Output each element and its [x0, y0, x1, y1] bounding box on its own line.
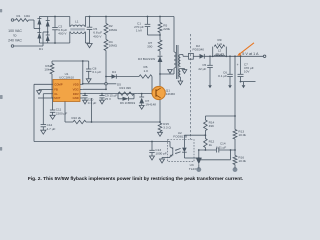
wire divider to R14: [205, 115, 235, 117]
svg-text:1N4148: 1N4148: [145, 103, 156, 107]
svg-text:to: to: [14, 34, 17, 38]
ground R15: [158, 132, 163, 137]
svg-text:0.1 µF: 0.1 µF: [92, 70, 101, 74]
svg-text:400 V: 400 V: [58, 32, 67, 36]
svg-text:220k: 220k: [163, 27, 170, 31]
capacitor C9: [99, 94, 117, 102]
ground primary near transformer: [168, 70, 173, 74]
wire D4 to R6: [116, 76, 139, 78]
svg-text:CL: CL: [54, 92, 58, 96]
resistor R13: [118, 86, 134, 95]
IC U1 UCC28610: [53, 72, 80, 102]
diode D3: [138, 51, 162, 62]
wire R16 bottom: [234, 165, 236, 168]
optocoupler U2 box: [168, 131, 194, 162]
svg-text:1000 pF: 1000 pF: [155, 152, 166, 156]
resistor R2: [104, 17, 118, 35]
svg-text:400 V: 400 V: [93, 34, 102, 38]
wire divider mid: [234, 139, 236, 156]
svg-text:22 µF: 22 µF: [198, 67, 206, 71]
opto arrows: [175, 148, 181, 154]
inductor L2: [215, 48, 225, 56]
wire DRV riser: [91, 98, 93, 122]
svg-text:10MΩ: 10MΩ: [109, 28, 118, 32]
svg-text:0.1 µF: 0.1 µF: [218, 74, 227, 78]
arrow output annotation: [237, 43, 254, 56]
diode D4: [106, 70, 116, 79]
resistor R1: [14, 14, 31, 21]
ground primary C5: [87, 44, 92, 48]
ground C12: [41, 130, 46, 134]
resistor R6: [139, 65, 152, 78]
svg-text:1.0: 1.0: [144, 69, 149, 73]
svg-text:4.7 µF: 4.7 µF: [47, 127, 56, 131]
diode D1a: [37, 17, 41, 29]
svg-text:0.1 µF: 0.1 µF: [88, 101, 97, 105]
capacitor C5 output: [198, 56, 212, 83]
wire snubber bottom: [148, 34, 161, 36]
capacitor C13: [149, 142, 167, 157]
node output terminal: [263, 55, 266, 58]
capacitor C7: [237, 56, 254, 81]
svg-text:COMP: COMP: [54, 82, 62, 86]
wire bottom rail to gnd: [85, 42, 89, 44]
transformer core: [176, 45, 178, 79]
wire C7 bottom: [240, 81, 256, 83]
IC pin stubs and pin labels: [54, 82, 83, 100]
svg-text:+: +: [237, 63, 239, 67]
diode D7 clamp: [139, 93, 156, 107]
ground C8: [86, 79, 91, 83]
ferrite bead: [189, 53, 194, 59]
wire primary bottom: [160, 68, 174, 74]
diode D1b: [37, 29, 41, 44]
svg-text:10k: 10k: [44, 68, 49, 72]
svg-text:D3 BAV21W: D3 BAV21W: [138, 57, 155, 61]
wire top rail mid: [85, 16, 174, 18]
wire bias top: [180, 69, 184, 70]
svg-text:2200 µF: 2200 µF: [56, 111, 68, 115]
wire R4 down: [105, 51, 107, 90]
svg-text:D4: D4: [112, 70, 116, 74]
svg-text:10 µH: 10 µH: [215, 52, 223, 56]
ground opto emitter: [160, 158, 165, 164]
svg-text:VDD: VDD: [73, 82, 79, 86]
node D5 test point: [105, 83, 121, 87]
resistor R4: [104, 35, 118, 51]
svg-text:100 VAC: 100 VAC: [8, 29, 22, 33]
ground secondary C6: [228, 83, 232, 88]
svg-text:10.0k: 10.0k: [238, 159, 246, 163]
diode D2: [193, 44, 205, 59]
resistor R13 divider: [233, 129, 246, 139]
resistor R10: [65, 116, 86, 124]
svg-text:1 kV: 1 kV: [136, 29, 143, 33]
label input voltage: [8, 29, 22, 43]
ground D7: [139, 105, 144, 109]
wire bridge bottom: [39, 42, 47, 44]
wire VDD riser: [82, 61, 84, 85]
wire divider column: [234, 56, 236, 129]
label output: [242, 52, 259, 56]
svg-text:R1: R1: [17, 14, 21, 18]
ground C13: [150, 156, 155, 160]
diode D6 parallel: [118, 94, 136, 105]
svg-text:GND: GND: [73, 96, 79, 100]
node AC input top terminal: [11, 19, 14, 22]
svg-text:10V: 10V: [244, 70, 250, 74]
ground C11: [50, 115, 55, 119]
caption: [28, 176, 244, 182]
ground bias bottom: [178, 81, 183, 85]
wire Q1 source: [159, 100, 161, 123]
wire TL431 ref: [201, 149, 231, 160]
svg-text:R10 2k: R10 2k: [72, 116, 82, 120]
svg-text:240 VAC: 240 VAC: [8, 38, 22, 42]
capacitor C14: [216, 142, 226, 153]
svg-text:12N60: 12N60: [166, 92, 175, 96]
isolation barrier dashed line: [190, 34, 192, 140]
wire secondary to bead: [180, 55, 188, 57]
wire R6 to gate: [151, 77, 153, 95]
svg-text:1 Ω: 1 Ω: [217, 42, 223, 46]
ground C10: [83, 100, 88, 104]
ground secondary C7: [242, 82, 246, 89]
svg-text:0.01 µF: 0.01 µF: [216, 145, 226, 149]
wire IC bottom pin: [64, 102, 66, 123]
transformer T1 bias winding: [179, 69, 180, 78]
shunt regulator U3 TL431: [189, 158, 202, 171]
wire bottom input to bridge: [14, 32, 48, 46]
transformer T1 primary: [174, 52, 176, 68]
svg-text:L1: L1: [75, 20, 79, 24]
svg-text:1k: 1k: [209, 143, 213, 147]
wire IC row4 left: [38, 97, 53, 99]
opto LED: [182, 135, 199, 158]
wire R3 top to C8: [52, 60, 89, 62]
resistor R14: [204, 116, 215, 131]
wire LED anode: [184, 134, 205, 136]
svg-text:PDS340: PDS340: [193, 48, 205, 52]
wire bridge top: [39, 17, 49, 33]
wire GND pin: [83, 88, 107, 90]
node AC input bottom terminal: [11, 45, 14, 48]
svg-text:499: 499: [209, 124, 214, 128]
wire IC row3 left: [43, 94, 53, 125]
wire bottom rail left: [48, 42, 70, 44]
wire top rail left: [48, 16, 70, 18]
resistor R9: [213, 38, 227, 56]
wire R14 bottom: [205, 131, 207, 139]
ground TL431: [196, 167, 201, 172]
svg-text:3.3 Ω: 3.3 Ω: [163, 126, 171, 130]
ground secondary R16: [233, 167, 238, 172]
resistor R15: [158, 122, 171, 132]
svg-text:10MΩ: 10MΩ: [109, 44, 118, 48]
svg-text:Fig. 2. This 5V/5W flyback imp: Fig. 2. This 5V/5W flyback implements po…: [28, 176, 244, 182]
svg-text:10Ω: 10Ω: [24, 14, 30, 18]
wire bias bottom: [179, 77, 181, 81]
capacitor C6 output: [218, 56, 233, 83]
opto phototransistor: [162, 142, 173, 158]
capacitor C1: [134, 17, 150, 36]
wire compensation: [198, 148, 236, 151]
svg-text:5 V at 1 A: 5 V at 1 A: [242, 52, 259, 56]
wire VDD row: [83, 83, 105, 85]
resistor R3: [44, 61, 54, 98]
resistor R7: [147, 35, 162, 51]
svg-text:DRV: DRV: [73, 92, 79, 96]
wire FB riser: [34, 84, 170, 142]
wire R1 to bridge: [29, 20, 40, 29]
svg-text:MOT: MOT: [54, 96, 60, 100]
svg-text:D1: D1: [39, 47, 43, 51]
resistor R16: [233, 155, 246, 164]
svg-text:D6 1N5819: D6 1N5819: [120, 101, 136, 105]
svg-text:25 V: 25 V: [105, 97, 111, 101]
wire DRV to source: [86, 121, 160, 123]
resistor R5: [158, 17, 170, 36]
diode D1d: [46, 32, 50, 43]
wire rail to primary: [173, 17, 175, 53]
wire DRV row3: [83, 93, 154, 95]
svg-text:VGG: VGG: [73, 88, 79, 92]
svg-text:10.0k: 10.0k: [238, 133, 246, 137]
ground bias top: [182, 70, 187, 74]
capacitor C10: [82, 94, 96, 105]
wire IC row2 left: [37, 89, 53, 94]
svg-text:R13 499: R13 499: [120, 86, 132, 90]
capacitor C5: [87, 17, 103, 44]
svg-text:FB: FB: [54, 88, 58, 92]
inductor L1: [70, 17, 86, 44]
capacitor C11: [50, 97, 67, 115]
svg-text:300: 300: [147, 45, 152, 49]
label D1: [39, 47, 43, 51]
resistor R12: [204, 139, 215, 148]
diode D1c: [46, 17, 50, 33]
capacitor C2: [52, 17, 67, 44]
transistor Q1: [152, 86, 175, 99]
transformer T1 secondary: [179, 55, 181, 67]
capacitor C8: [86, 61, 101, 79]
ground C9: [100, 100, 105, 104]
wire IC row1 left: [34, 83, 53, 85]
wire D3 to drain: [159, 62, 161, 87]
ground secondary C5: [208, 83, 212, 88]
capacitor C12: [41, 123, 56, 131]
wire output rail: [204, 55, 263, 57]
svg-text:UCC28610: UCC28610: [59, 76, 74, 80]
wire TL431 cathode: [198, 150, 200, 159]
